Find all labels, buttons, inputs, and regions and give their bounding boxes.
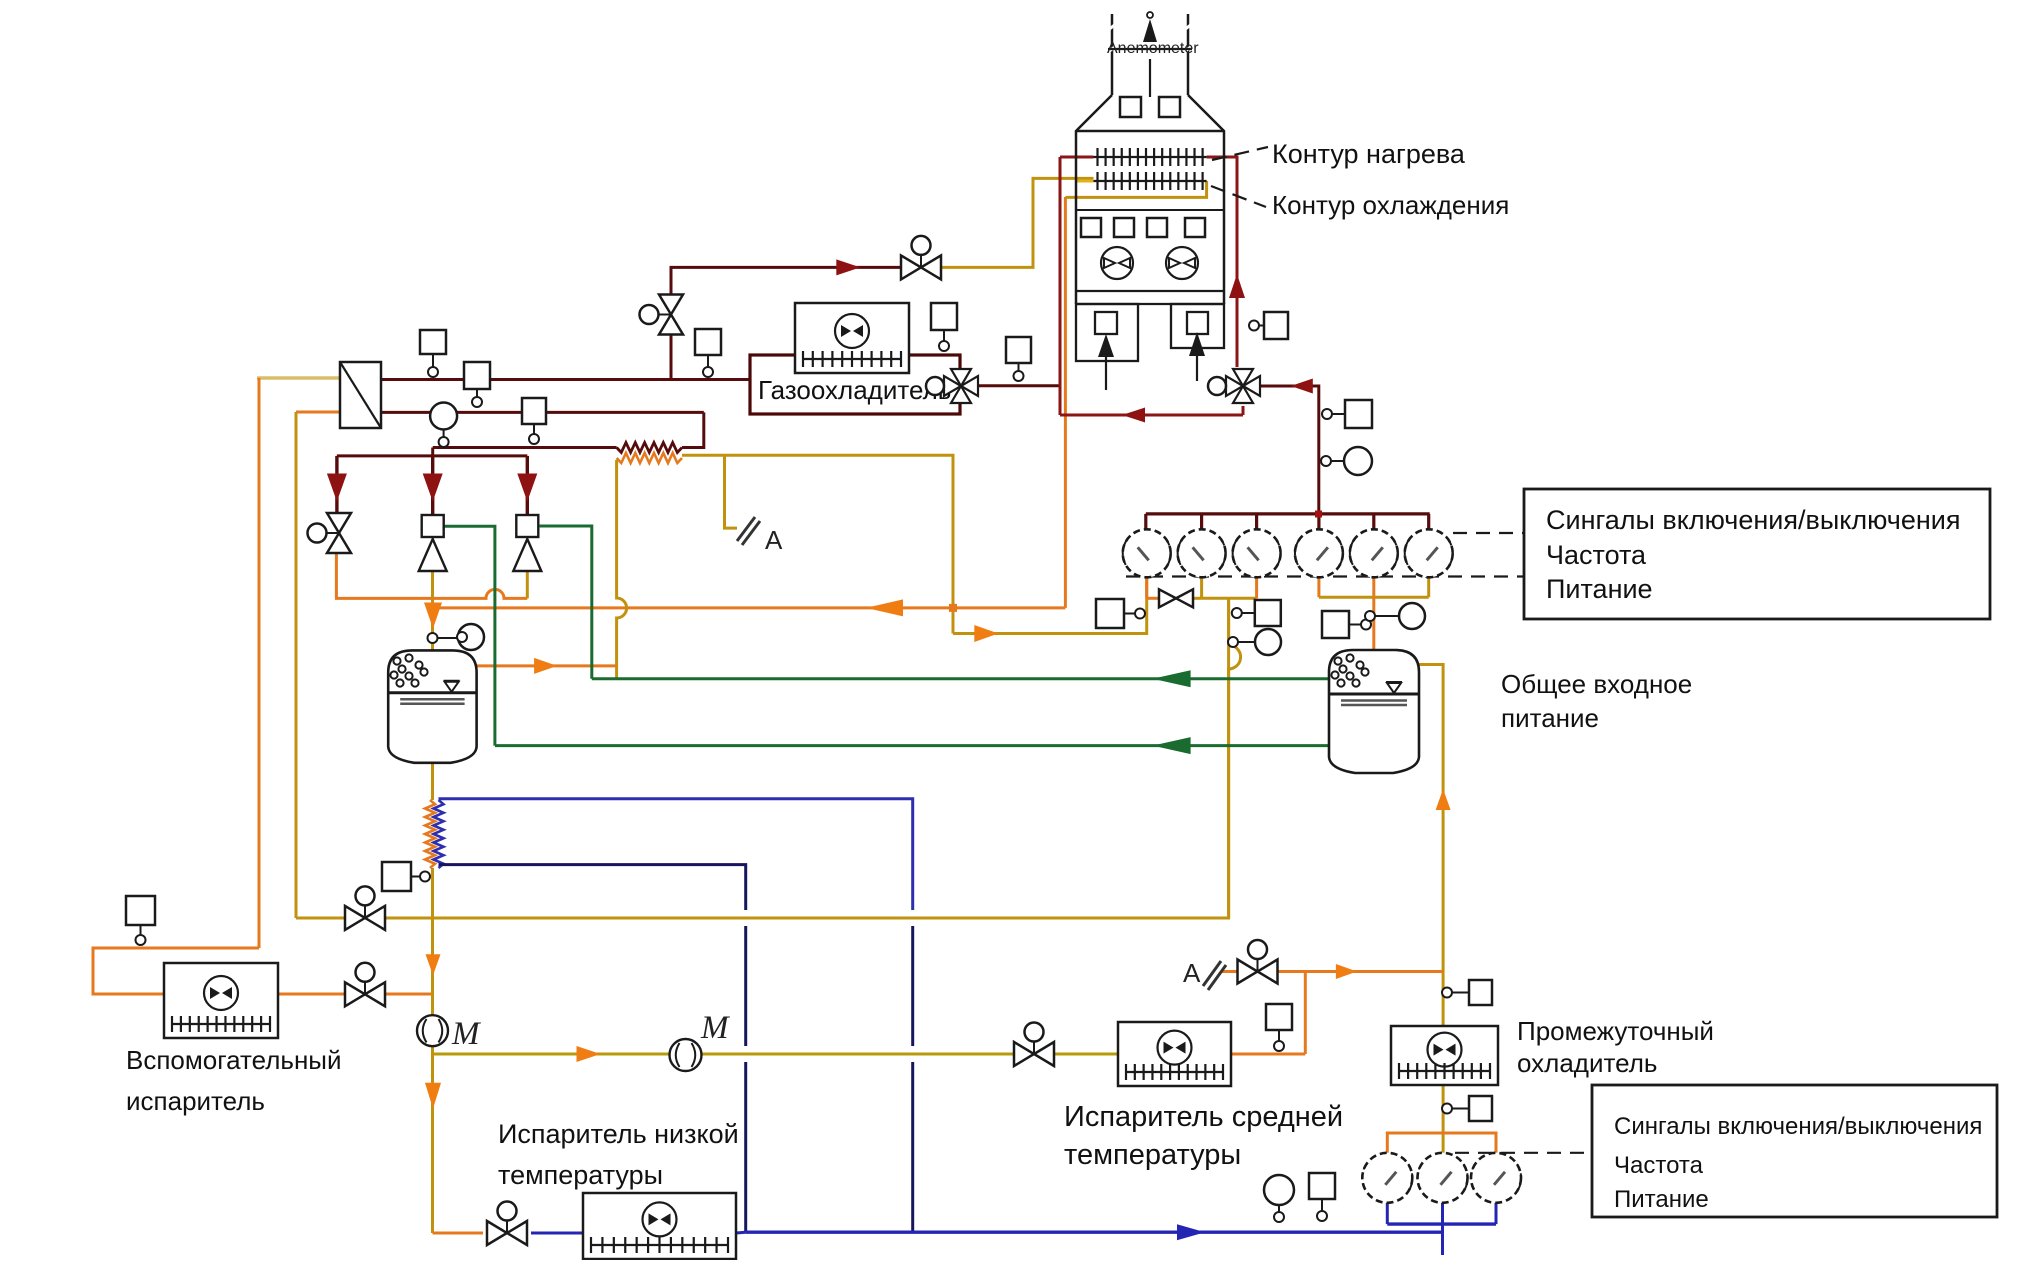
svg-text:A: A — [1183, 958, 1201, 988]
svg-text:Питание: Питание — [1546, 574, 1653, 604]
svg-text:охладитель: охладитель — [1517, 1048, 1657, 1078]
svg-text:Общее входное: Общее входное — [1501, 669, 1692, 699]
svg-text:Anemometer: Anemometer — [1107, 40, 1199, 57]
svg-text:M: M — [451, 1016, 481, 1052]
svg-text:Сингалы включения/выключения: Сингалы включения/выключения — [1546, 505, 1960, 535]
svg-text:температуры: температуры — [498, 1160, 663, 1190]
svg-text:A: A — [765, 525, 783, 555]
svg-text:испаритель: испаритель — [126, 1086, 265, 1116]
svg-text:Питание: Питание — [1614, 1186, 1709, 1213]
svg-text:M: M — [700, 1010, 730, 1046]
svg-text:Частота: Частота — [1614, 1152, 1704, 1179]
svg-text:Испаритель средней: Испаритель средней — [1064, 1101, 1343, 1133]
svg-text:Контур нагрева: Контур нагрева — [1272, 139, 1466, 169]
svg-text:питание: питание — [1501, 703, 1599, 733]
svg-text:Газоохладитель: Газоохладитель — [758, 375, 951, 405]
svg-text:температуры: температуры — [1064, 1139, 1241, 1171]
svg-text:Испаритель низкой: Испаритель низкой — [498, 1119, 739, 1149]
svg-text:Контур охлаждения: Контур охлаждения — [1272, 190, 1509, 220]
svg-text:Вспомогательный: Вспомогательный — [126, 1045, 342, 1075]
svg-text:Промежуточный: Промежуточный — [1517, 1016, 1714, 1046]
svg-text:Частота: Частота — [1546, 540, 1647, 570]
svg-text:Сингалы включения/выключения: Сингалы включения/выключения — [1614, 1113, 1982, 1140]
